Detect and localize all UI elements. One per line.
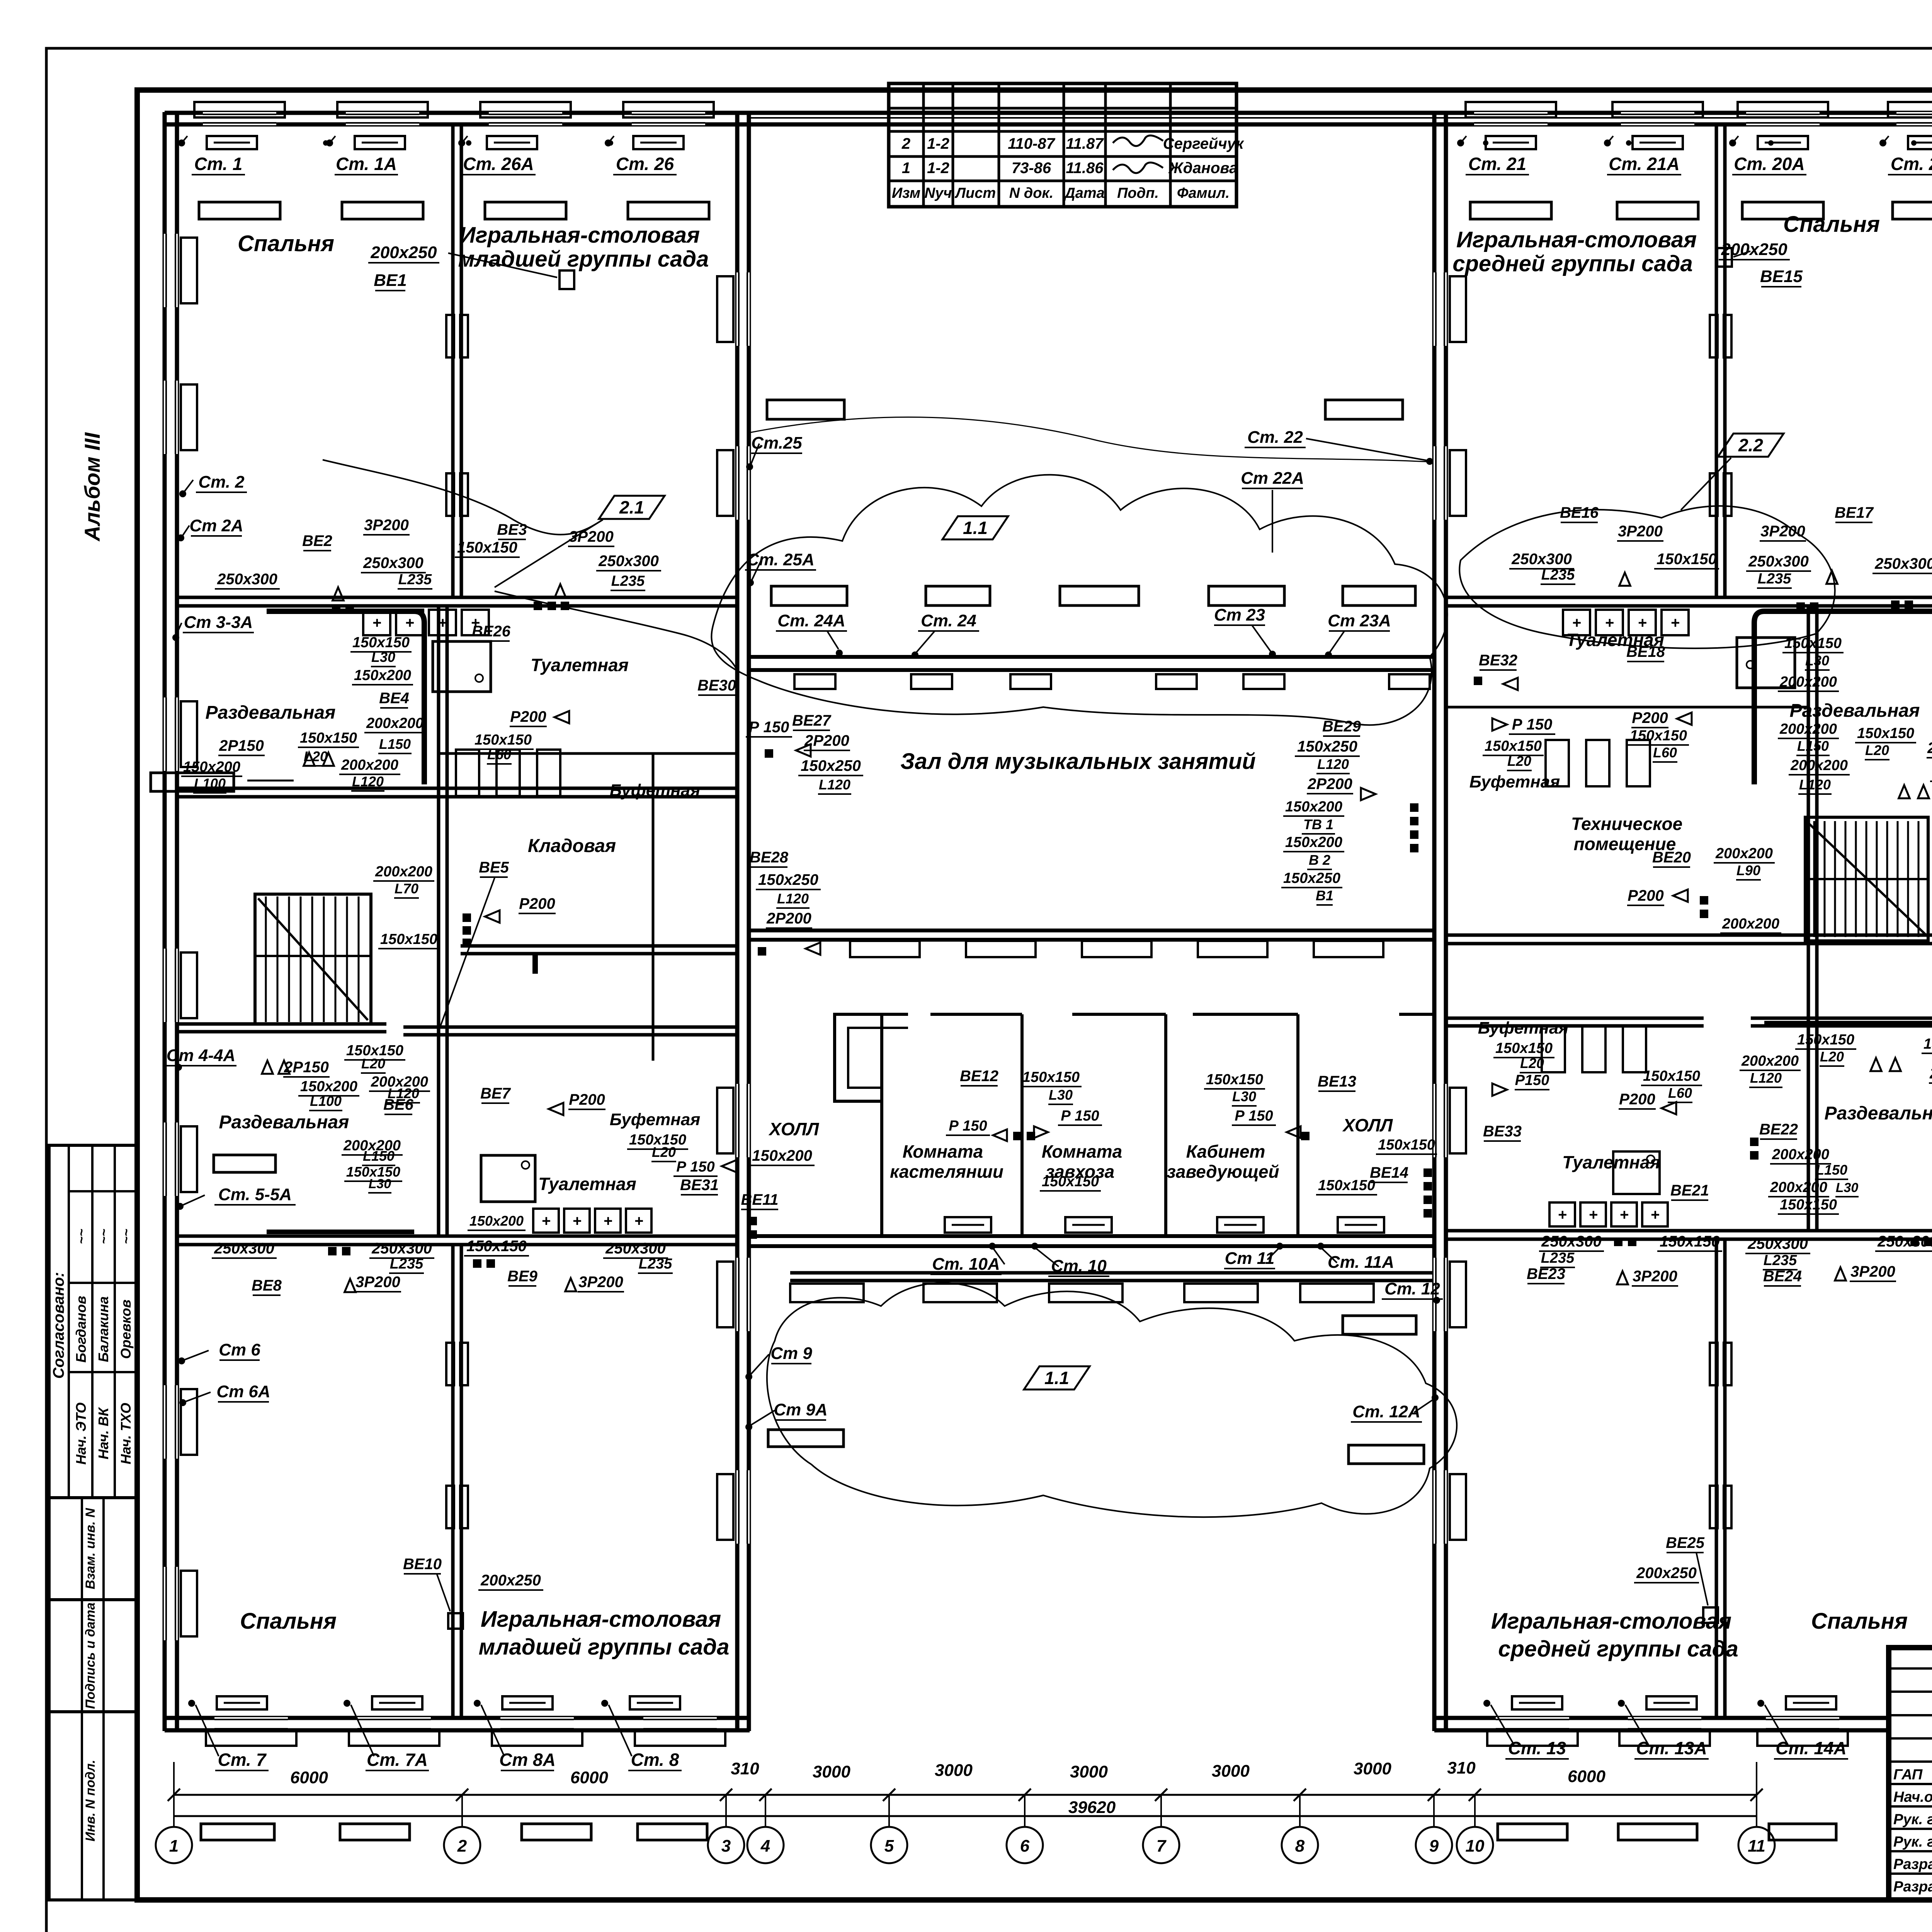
windows north wall right wing — [1474, 112, 1548, 125]
svg-text:+: + — [541, 1213, 550, 1230]
svg-text:150x200: 150x200 — [1923, 1036, 1932, 1052]
svg-text:3Р200: 3Р200 — [1633, 1268, 1677, 1285]
svg-text:Ст. 7: Ст. 7 — [218, 1750, 267, 1770]
thick duct run left wing upper — [267, 611, 424, 784]
svg-text:Оревков: Оревков — [118, 1299, 134, 1359]
window sills hall south wall lower — [794, 674, 835, 689]
duct boxes with markers bottom-left wing — [217, 1696, 267, 1709]
svg-text:Рук. гр.: Рук. гр. — [1893, 1811, 1932, 1828]
svg-text:ВЕ14: ВЕ14 — [1370, 1164, 1408, 1181]
grid bubble 2 — [444, 1827, 480, 1863]
grid bubble 3 — [708, 1827, 744, 1863]
svg-text:6000: 6000 — [290, 1768, 328, 1787]
svg-text:ВЕ7: ВЕ7 — [480, 1085, 511, 1102]
svg-text:2.2: 2.2 — [1738, 435, 1763, 455]
svg-text:3Р200: 3Р200 — [364, 517, 409, 534]
grid bubble 5 — [871, 1827, 907, 1863]
central hall north wall — [749, 111, 1434, 115]
svg-text:Ст. 21А: Ст. 21А — [1609, 154, 1679, 174]
svg-text:Ст. 21: Ст. 21 — [1468, 154, 1526, 174]
cloud around bottom corridor system 1.1 — [767, 1283, 1457, 1517]
left wing stair bottom wall — [178, 1022, 386, 1026]
svg-text:Туалетная: Туалетная — [538, 1174, 636, 1194]
svg-text:150x150: 150x150 — [1378, 1137, 1435, 1153]
toilet stalls left upper — [456, 750, 479, 796]
svg-text:3Р200: 3Р200 — [355, 1274, 400, 1291]
svg-text:5: 5 — [884, 1837, 894, 1855]
svg-text:6: 6 — [1020, 1837, 1030, 1855]
bottom dimension line — [174, 1794, 1757, 1796]
svg-text:2Р150: 2Р150 — [1927, 740, 1932, 757]
svg-text:Р200: Р200 — [1632, 709, 1668, 726]
svg-text:Изм: Изм — [892, 185, 920, 201]
middle band rooms top walls — [930, 1013, 1022, 1016]
svg-text:Ст 8А: Ст 8А — [499, 1750, 556, 1770]
svg-text:ВЕ31: ВЕ31 — [680, 1177, 719, 1194]
svg-text:250x300: 250x300 — [214, 1240, 274, 1257]
right wing partition wall y2635 — [1446, 1017, 1704, 1020]
duct risers double line marks — [446, 315, 454, 357]
svg-text:ВЕ2: ВЕ2 — [302, 532, 332, 549]
svg-text:Ст. 2: Ст. 2 — [198, 473, 245, 492]
svg-text:200x200: 200x200 — [1715, 845, 1773, 862]
toilet fixture squares left upper — [363, 610, 390, 635]
svg-text:L120: L120 — [1799, 777, 1831, 793]
svg-text:Комната: Комната — [903, 1141, 983, 1162]
svg-text:9: 9 — [1429, 1837, 1439, 1855]
svg-text:Кабинет: Кабинет — [1186, 1141, 1265, 1162]
right wing room divider lower — [1715, 1239, 1718, 1718]
svg-text:150x150: 150x150 — [352, 634, 410, 651]
svg-text:+: + — [572, 1213, 581, 1230]
svg-text:250x300: 250x300 — [1748, 553, 1809, 570]
left margin block Инв.N подл. — [49, 1712, 138, 1900]
svg-text:2Р150: 2Р150 — [1929, 1065, 1932, 1082]
svg-text:3000: 3000 — [935, 1761, 973, 1780]
svg-text:~~: ~~ — [74, 1229, 89, 1244]
svg-text:3: 3 — [721, 1837, 731, 1855]
svg-text:Разраб.: Разраб. — [1893, 1856, 1932, 1872]
wall connection dots row top wings — [179, 140, 184, 146]
svg-text:Ст. 13: Ст. 13 — [1508, 1738, 1566, 1758]
svg-text:L120: L120 — [352, 774, 384, 789]
svg-text:+: + — [372, 614, 381, 631]
svg-text:1.1: 1.1 — [1044, 1368, 1069, 1388]
svg-text:Ст. 7А: Ст. 7А — [367, 1750, 428, 1770]
leader curves near Ст22 — [749, 417, 1428, 462]
cloud around central hall system 1.1 — [711, 475, 1447, 725]
svg-text:L20: L20 — [1865, 742, 1889, 758]
right wing south exterior wall — [1434, 1716, 1889, 1720]
svg-text:Р 150: Р 150 — [1061, 1108, 1099, 1124]
svg-text:2Р150: 2Р150 — [284, 1059, 329, 1076]
svg-text:ВЕ5: ВЕ5 — [479, 859, 509, 876]
svg-text:Туалетная: Туалетная — [1562, 1152, 1660, 1172]
svg-text:Ст. 24А: Ст. 24А — [777, 611, 845, 630]
svg-text:310: 310 — [731, 1759, 759, 1778]
svg-text:6000: 6000 — [570, 1768, 608, 1787]
svg-text:Ст 3-3А: Ст 3-3А — [184, 613, 253, 632]
svg-text:L235: L235 — [611, 573, 645, 589]
svg-text:150x150: 150x150 — [474, 732, 532, 748]
svg-text:+: + — [1605, 614, 1614, 631]
svg-text:Ст. 12: Ст. 12 — [1384, 1279, 1440, 1298]
svg-text:Сергейчук: Сергейчук — [1163, 135, 1244, 152]
svg-text:Ст. 1: Ст. 1 — [194, 154, 243, 174]
left wing west exterior wall — [163, 112, 167, 1731]
svg-text:L20: L20 — [652, 1144, 676, 1160]
svg-text:В1: В1 — [1316, 888, 1333, 903]
window sills corridor south wall — [790, 1284, 864, 1302]
svg-text:заведующей: заведующей — [1167, 1162, 1279, 1182]
svg-text:Ст. 22: Ст. 22 — [1247, 428, 1303, 447]
grid bubble 8 — [1282, 1827, 1318, 1863]
radiators central hall row — [771, 586, 847, 605]
svg-text:Игральная-столовая: Игральная-столовая — [1456, 227, 1697, 252]
right wing north exterior wall — [1434, 111, 1932, 115]
svg-text:Ст. 26А: Ст. 26А — [463, 154, 534, 174]
svg-text:+: + — [1588, 1206, 1597, 1223]
svg-text:ВЕ28: ВЕ28 — [750, 849, 789, 866]
grid bubble 7 — [1143, 1827, 1179, 1863]
svg-text:Дата: Дата — [1063, 185, 1105, 201]
svg-text:L30: L30 — [1049, 1087, 1073, 1103]
svg-text:3Р200: 3Р200 — [578, 1274, 623, 1291]
svg-text:Р200: Р200 — [510, 708, 546, 725]
svg-text:Р 150: Р 150 — [749, 719, 789, 736]
svg-text:250x300: 250x300 — [1874, 555, 1932, 572]
svg-text:150x200: 150x200 — [354, 667, 411, 684]
svg-text:L235: L235 — [1541, 1250, 1575, 1266]
svg-text:150x150: 150x150 — [1857, 725, 1914, 742]
svg-text:Спальня: Спальня — [238, 231, 334, 256]
svg-text:150x150: 150x150 — [1206, 1071, 1263, 1088]
svg-text:L235: L235 — [639, 1256, 672, 1272]
svg-text:Ст. 8: Ст. 8 — [631, 1750, 679, 1770]
svg-text:11: 11 — [1748, 1837, 1765, 1855]
svg-text:Туалетная: Туалетная — [531, 655, 629, 675]
svg-text:L150: L150 — [1797, 738, 1829, 754]
svg-text:ВЕ32: ВЕ32 — [1479, 652, 1517, 669]
svg-text:150x150: 150x150 — [1318, 1177, 1375, 1194]
svg-text:Р 150: Р 150 — [676, 1159, 714, 1175]
svg-text:11.87: 11.87 — [1066, 135, 1104, 152]
svg-text:ВЕ6: ВЕ6 — [383, 1096, 414, 1113]
svg-text:Ст 23: Ст 23 — [1214, 605, 1265, 624]
left wing east exterior wall — [735, 112, 740, 1731]
svg-text:Богданов: Богданов — [73, 1296, 89, 1362]
svg-text:Ст. 24: Ст. 24 — [921, 611, 976, 630]
svg-text:L100: L100 — [310, 1093, 342, 1109]
svg-text:Подпись и дата: Подпись и дата — [83, 1602, 98, 1709]
svg-text:1-2: 1-2 — [927, 135, 949, 152]
svg-text:L60: L60 — [1653, 745, 1677, 760]
svg-text:+: + — [1650, 1206, 1659, 1223]
svg-text:Балакина: Балакина — [95, 1296, 111, 1362]
svg-text:73-86: 73-86 — [1012, 160, 1051, 177]
right wing vertical partition x4680 — [1807, 606, 1810, 1231]
svg-text:младшей группы сада: младшей группы сада — [479, 1634, 730, 1660]
left wing room divider lower — [451, 1245, 455, 1718]
svg-text:В 2: В 2 — [1309, 852, 1330, 868]
svg-text:150x150: 150x150 — [300, 730, 357, 746]
svg-text:младшей группы сада: младшей группы сада — [458, 247, 709, 272]
left wing lower toilet top wall — [403, 1026, 737, 1029]
svg-text:Раздевальная: Раздевальная — [219, 1112, 349, 1133]
svg-text:Буфетная: Буфетная — [610, 781, 701, 800]
svg-text:200x250: 200x250 — [1636, 1565, 1697, 1582]
svg-text:1-2: 1-2 — [927, 160, 949, 177]
svg-text:ВЕ3: ВЕ3 — [497, 521, 527, 538]
svg-text:Взам. инв. N: Взам. инв. N — [83, 1507, 98, 1589]
svg-text:150x200: 150x200 — [300, 1078, 357, 1095]
svg-text:2Р200: 2Р200 — [1307, 776, 1352, 793]
svg-text:150x200: 150x200 — [1285, 799, 1342, 815]
svg-text:150x150: 150x150 — [380, 931, 437, 947]
svg-text:кастелянши: кастелянши — [890, 1162, 1003, 1182]
svg-text:Р200: Р200 — [569, 1091, 605, 1108]
svg-text:Р150: Р150 — [1515, 1072, 1549, 1088]
svg-text:+: + — [1619, 1206, 1628, 1223]
grid bubble 9 — [1416, 1827, 1452, 1863]
svg-text:L120: L120 — [777, 891, 809, 906]
ticks on bottom dim ends — [173, 1762, 175, 1816]
svg-text:Раздевальная: Раздевальная — [206, 702, 336, 723]
svg-text:+: + — [438, 614, 447, 631]
svg-text:150x150: 150x150 — [466, 1238, 527, 1255]
svg-text:+: + — [1572, 614, 1581, 631]
svg-text:ВЕ10: ВЕ10 — [403, 1556, 442, 1573]
svg-text:Ст 23А: Ст 23А — [1328, 611, 1391, 630]
left wing partition wall y3199 — [177, 1235, 737, 1238]
svg-text:Инв. N подл.: Инв. N подл. — [83, 1760, 98, 1842]
svg-text:ХОЛЛ: ХОЛЛ — [1342, 1115, 1393, 1135]
left wing pantry bottom wall y2450 — [461, 944, 737, 948]
svg-text:200x250: 200x250 — [370, 243, 437, 262]
svg-text:150x250: 150x250 — [1297, 738, 1357, 755]
svg-text:200x200: 200x200 — [366, 715, 423, 731]
svg-text:Альбом III: Альбом III — [80, 432, 104, 542]
middle band entry alcove — [835, 1014, 908, 1101]
svg-text:Жданова: Жданова — [1168, 160, 1238, 177]
svg-text:Нач. ТХО: Нач. ТХО — [118, 1403, 134, 1464]
svg-text:Р 150: Р 150 — [949, 1118, 987, 1134]
svg-text:+: + — [634, 1213, 643, 1230]
grid bubble 1 — [156, 1827, 192, 1863]
svg-text:200x200: 200x200 — [1790, 757, 1848, 774]
svg-text:L120: L120 — [819, 777, 850, 793]
svg-text:2: 2 — [901, 135, 910, 152]
svg-text:Спальня: Спальня — [1811, 1609, 1908, 1634]
svg-text:Ст 11: Ст 11 — [1225, 1249, 1275, 1268]
svg-text:ВЕ27: ВЕ27 — [792, 712, 832, 729]
svg-text:250x300: 250x300 — [1541, 1233, 1602, 1250]
svg-text:Раздевальная: Раздевальная — [1790, 701, 1920, 721]
svg-text:ВЕ33: ВЕ33 — [1483, 1123, 1522, 1140]
windows courtyard walls of wings — [736, 272, 750, 346]
tag 2.1 left wing — [599, 496, 665, 519]
svg-text:Буфетная: Буфетная — [610, 1110, 701, 1129]
right wing toilet partition y1830 — [1446, 706, 1808, 709]
left wing pantry partition — [652, 753, 655, 1061]
svg-text:Ст. 10: Ст. 10 — [1051, 1257, 1107, 1276]
svg-text:Игральная-столовая: Игральная-столовая — [459, 223, 700, 248]
window sills music hall south wall — [850, 941, 920, 957]
svg-text:Рук. гр.: Рук. гр. — [1893, 1834, 1932, 1850]
left wing north exterior wall — [165, 111, 750, 115]
left wing room divider upper — [451, 124, 455, 597]
middle band south wall of rooms — [749, 1234, 1434, 1238]
svg-text:150x150: 150x150 — [1643, 1068, 1700, 1084]
svg-text:Ст. 20: Ст. 20 — [1891, 154, 1932, 174]
svg-text:3Р200: 3Р200 — [1618, 523, 1663, 540]
windows south wall right wing — [1496, 1717, 1569, 1731]
svg-text:средней группы сада: средней группы сада — [1452, 251, 1693, 276]
toilet stalls right upper — [1546, 740, 1569, 786]
svg-text:L235: L235 — [398, 571, 432, 588]
svg-text:Ст 9: Ст 9 — [770, 1344, 812, 1363]
stair left wing — [255, 894, 371, 1024]
svg-text:Ст. 11А: Ст. 11А — [1328, 1253, 1394, 1272]
svg-text:Ст. 5-5А: Ст. 5-5А — [218, 1185, 292, 1204]
svg-text:ТВ 1: ТВ 1 — [1303, 816, 1333, 832]
music hall south wall — [749, 929, 1434, 932]
svg-text:Ст. 20А: Ст. 20А — [1734, 154, 1804, 174]
revision table — [889, 83, 1236, 207]
svg-text:L100: L100 — [194, 776, 226, 791]
svg-text:3000: 3000 — [1070, 1762, 1108, 1781]
left wing partition wall y1550 — [177, 596, 737, 599]
svg-text:150x150: 150x150 — [1797, 1032, 1854, 1048]
svg-text:Р200: Р200 — [1628, 887, 1663, 904]
svg-text:Разраб.: Разраб. — [1893, 1879, 1932, 1895]
svg-text:ВЕ12: ВЕ12 — [960, 1068, 998, 1085]
svg-text:Ст.25: Ст.25 — [751, 434, 802, 452]
svg-text:Игральная-столовая: Игральная-столовая — [1491, 1609, 1731, 1634]
right wing partition wall y1550 — [1446, 596, 1932, 599]
svg-text:250x300: 250x300 — [605, 1240, 666, 1257]
svg-text:Игральная-столовая: Игральная-столовая — [481, 1607, 721, 1632]
svg-text:ВЕ9: ВЕ9 — [507, 1268, 538, 1285]
svg-text:L70: L70 — [395, 881, 418, 896]
svg-text:L30: L30 — [369, 1177, 391, 1191]
svg-text:ВЕ1: ВЕ1 — [374, 271, 407, 290]
svg-text:ВЕ24: ВЕ24 — [1763, 1268, 1802, 1285]
svg-text:150x250: 150x250 — [758, 871, 818, 888]
svg-text:Кладовая: Кладовая — [528, 836, 616, 856]
windows south wall left wing — [214, 1717, 288, 1731]
svg-text:3Р200: 3Р200 — [1850, 1263, 1895, 1280]
svg-text:Нач.отд.: Нач.отд. — [1893, 1789, 1932, 1805]
svg-text:150x200: 150x200 — [752, 1147, 812, 1164]
svg-text:Ст. 1А: Ст. 1А — [336, 154, 397, 174]
svg-text:Ст. 26: Ст. 26 — [616, 154, 674, 174]
right wing partition wall y3185 — [1446, 1229, 1932, 1233]
svg-text:N док.: N док. — [1009, 185, 1054, 201]
svg-text:Лист: Лист — [954, 185, 996, 201]
svg-text:250x300: 250x300 — [1511, 551, 1572, 568]
svg-text:3000: 3000 — [1354, 1759, 1391, 1778]
svg-text:Зал для музыкальных занятий: Зал для музыкальных занятий — [900, 749, 1256, 774]
svg-text:3000: 3000 — [813, 1762, 850, 1781]
svg-text:Ст 9А: Ст 9А — [774, 1400, 827, 1419]
svg-text:Согласовано:: Согласовано: — [50, 1272, 67, 1379]
svg-text:6000: 6000 — [1568, 1767, 1605, 1786]
duct boxes with markers top-left wing — [207, 136, 257, 149]
shower square right toilet — [1737, 638, 1795, 688]
right wing west exterior wall — [1432, 112, 1437, 1731]
svg-text:250x300: 250x300 — [217, 571, 277, 588]
svg-text:200x250: 200x250 — [480, 1572, 541, 1589]
svg-text:Комната: Комната — [1042, 1141, 1122, 1162]
svg-text:250x300: 250x300 — [363, 554, 423, 571]
left margin approval block — [49, 1145, 138, 1498]
svg-text:ВЕ21: ВЕ21 — [1670, 1182, 1709, 1199]
svg-text:Ст. 10А: Ст. 10А — [932, 1255, 1000, 1274]
svg-text:L30: L30 — [1836, 1180, 1859, 1195]
svg-text:150x150: 150x150 — [1485, 738, 1542, 754]
thick duct run right wing upper — [1754, 611, 1932, 784]
svg-text:Р 150: Р 150 — [1235, 1108, 1273, 1124]
svg-text:L120: L120 — [1317, 756, 1349, 772]
svg-text:средней группы сада: средней группы сада — [1498, 1636, 1738, 1662]
svg-text:250x300: 250x300 — [1747, 1235, 1808, 1252]
svg-text:L20: L20 — [1520, 1055, 1544, 1071]
svg-text:10: 10 — [1466, 1837, 1485, 1855]
curve 2.1 system wavy line — [323, 460, 603, 535]
svg-text:150x150: 150x150 — [1042, 1173, 1099, 1190]
left wing south exterior wall — [165, 1716, 750, 1720]
svg-text:110-87: 110-87 — [1008, 135, 1055, 152]
svg-text:+: + — [405, 614, 414, 631]
svg-text:11.86: 11.86 — [1066, 160, 1104, 177]
svg-text:Раздевальная: Раздевальная — [1825, 1103, 1932, 1124]
svg-text:2.1: 2.1 — [619, 497, 644, 517]
svg-text:250x300: 250x300 — [1877, 1233, 1932, 1250]
svg-text:Буфетная: Буфетная — [1478, 1019, 1569, 1037]
svg-text:L60: L60 — [1668, 1085, 1692, 1101]
svg-text:ГАП: ГАП — [1893, 1767, 1923, 1783]
thick duct run right wing lower — [1764, 1021, 1932, 1026]
svg-text:150x250: 150x250 — [1283, 870, 1340, 886]
svg-text:Нач. ВК: Нач. ВК — [95, 1406, 111, 1459]
svg-text:L150: L150 — [1816, 1162, 1847, 1178]
radiators in top wing rooms — [199, 202, 280, 219]
svg-text:L30: L30 — [1232, 1088, 1256, 1104]
svg-text:ХОЛЛ: ХОЛЛ — [768, 1119, 820, 1139]
svg-text:Подп.: Подп. — [1117, 185, 1159, 201]
left wing vertical partition x1135 — [437, 606, 440, 1236]
svg-text:150x150: 150x150 — [1630, 728, 1687, 744]
svg-text:Nуч: Nуч — [925, 185, 952, 201]
svg-text:Спальня: Спальня — [1783, 212, 1880, 237]
svg-text:2Р200: 2Р200 — [766, 910, 811, 927]
svg-text:200x200: 200x200 — [1722, 916, 1779, 932]
svg-text:L20: L20 — [361, 1056, 385, 1071]
svg-text:~~: ~~ — [97, 1229, 111, 1244]
duct boxes with markers top-right wing — [1486, 136, 1536, 149]
svg-text:Спальня: Спальня — [240, 1609, 337, 1634]
svg-text:ВЕ11: ВЕ11 — [741, 1191, 778, 1208]
svg-text:7: 7 — [1156, 1837, 1167, 1855]
right wing room divider upper — [1715, 124, 1718, 597]
svg-text:150x200: 150x200 — [469, 1213, 524, 1229]
svg-text:2Р150: 2Р150 — [219, 737, 264, 754]
svg-text:Р200: Р200 — [1619, 1091, 1655, 1108]
cloud right wing system 2.2 — [1459, 506, 1835, 648]
svg-text:3000: 3000 — [1212, 1762, 1250, 1781]
svg-text:ВЕ30: ВЕ30 — [697, 677, 736, 694]
